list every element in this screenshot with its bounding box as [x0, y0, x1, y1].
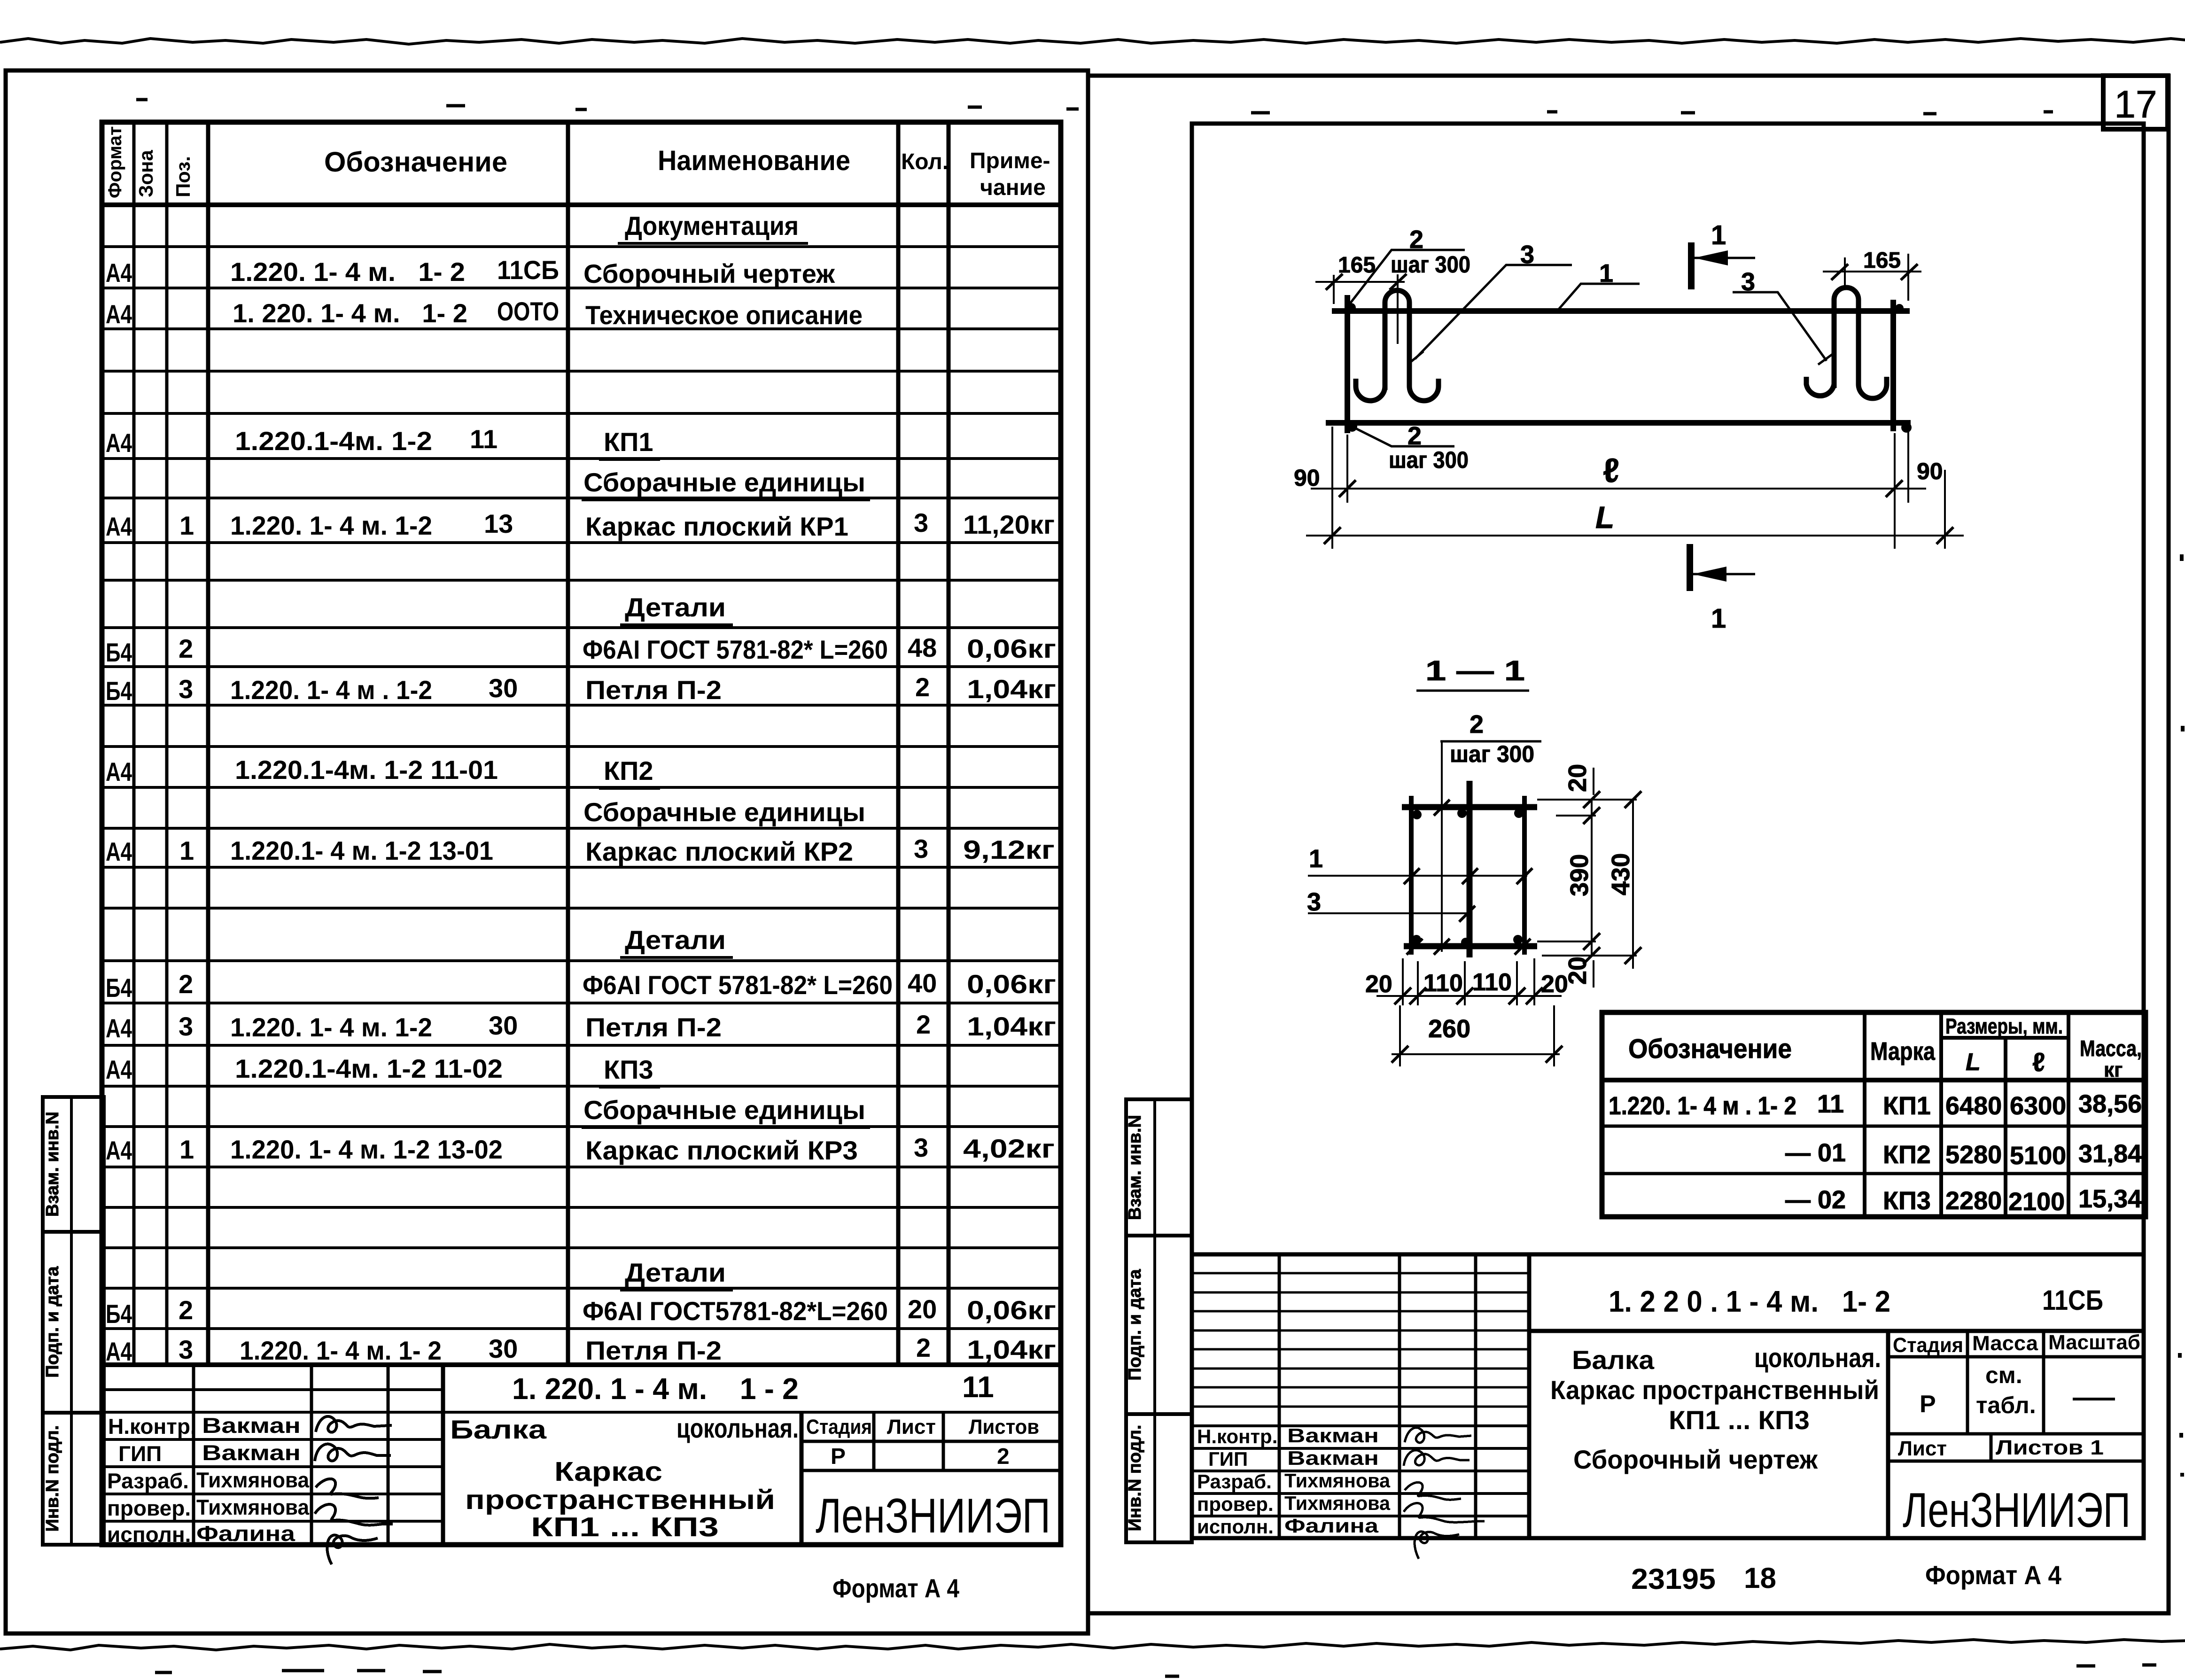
- svg-text:Кол.: Кол.: [901, 149, 949, 174]
- svg-text:Н.контр.: Н.контр.: [108, 1414, 196, 1439]
- svg-text:Балка: Балка: [1572, 1345, 1655, 1375]
- section dim ticks right: [1583, 791, 1641, 964]
- svg-text:табл.: табл.: [1976, 1392, 2036, 1418]
- svg-text:2: 2: [1470, 710, 1484, 739]
- section mark bottom line: [1687, 544, 1693, 591]
- svg-text:Сборочный чертеж: Сборочный чертеж: [583, 259, 835, 288]
- svg-text:Сборачные единицы: Сборачные единицы: [583, 467, 865, 497]
- right value масштаб dash: [2073, 1398, 2115, 1400]
- svg-text:Сборачные единицы: Сборачные единицы: [583, 797, 865, 827]
- LEFT-TITLEBLOCK-TEXT: [107, 1370, 1050, 1603]
- signature 1: [316, 1416, 392, 1432]
- svg-text:исполн.: исполн.: [107, 1522, 191, 1547]
- svg-text:3: 3: [179, 674, 193, 704]
- signature 5: [327, 1535, 378, 1564]
- svg-text:6480: 6480: [1945, 1092, 2002, 1120]
- svg-text:2: 2: [916, 1333, 931, 1362]
- svg-text:Разраб.: Разраб.: [107, 1469, 189, 1493]
- svg-text:1 — 1: 1 — 1: [1425, 655, 1525, 686]
- KP table verticals: [1865, 1012, 2068, 1217]
- svg-text:Подп. и дата: Подп. и дата: [43, 1266, 62, 1378]
- svg-text:Взам. инв.N: Взам. инв.N: [1125, 1115, 1145, 1220]
- svg-text:Ф6АI ГОСТ5781-82*L=260: Ф6АI ГОСТ5781-82*L=260: [583, 1296, 888, 1326]
- section mark top arrow shaft: [1691, 257, 1755, 259]
- svg-text:Каркас плоский КР2: Каркас плоский КР2: [585, 837, 853, 866]
- svg-text:пространственный: пространственный: [465, 1485, 775, 1515]
- right sheet outer border: [1088, 76, 2169, 1613]
- svg-text:Петля П-2: Петля П-2: [585, 675, 722, 705]
- stadia cols: [874, 1412, 943, 1470]
- svg-text:1: 1: [179, 836, 194, 865]
- RIGHT-DRAWING: [1294, 220, 1964, 1066]
- svg-text:Вакман: Вакман: [1287, 1447, 1379, 1469]
- svg-text:11: 11: [470, 424, 498, 454]
- dim l ticks: [1339, 480, 1903, 497]
- signature 2: [315, 1444, 391, 1461]
- svg-text:1: 1: [179, 1135, 194, 1164]
- svg-text:1.220.1-4м. 1-2: 1.220.1-4м. 1-2: [235, 426, 432, 456]
- section dim 20 top underline: [1593, 768, 1594, 795]
- svg-text:Масштаб: Масштаб: [2048, 1331, 2140, 1354]
- callout 2 top leader: [1348, 250, 1465, 306]
- svg-text:— 01: — 01: [1785, 1139, 1846, 1167]
- svg-text:А4: А4: [106, 299, 132, 329]
- section bottom ext lines: [1403, 958, 1534, 1005]
- svg-text:11: 11: [1817, 1090, 1844, 1118]
- dim l line: [1311, 488, 1926, 490]
- callout 3 left tick: [1407, 351, 1423, 365]
- svg-text:Разраб.: Разраб.: [1197, 1470, 1272, 1493]
- LEFT-SPEC-TABLE: [43, 122, 1061, 1545]
- svg-text:1: 1: [1309, 845, 1323, 873]
- right title block name rows: [1192, 1426, 1529, 1516]
- section tick marks: [1404, 800, 1532, 955]
- sheet number box 17: [2103, 76, 2168, 129]
- dim extension lines below beam: [1332, 427, 1945, 549]
- svg-text:Детали: Детали: [625, 1258, 726, 1287]
- svg-text:23195: 23195: [1631, 1563, 1716, 1595]
- spec table column Формат: [132, 122, 136, 1365]
- svg-text:Приме-: Приме-: [970, 148, 1050, 173]
- svg-text:11,20кг: 11,20кг: [963, 510, 1055, 539]
- svg-text:1. 2 2 0 . 1 - 4 м. 1- 2: 1. 2 2 0 . 1 - 4 м. 1- 2: [1609, 1284, 1890, 1318]
- right signature 3: [1405, 1482, 1461, 1500]
- svg-text:А4: А4: [106, 258, 132, 288]
- svg-text:165: 165: [1863, 248, 1901, 273]
- svg-text:15,34: 15,34: [2078, 1185, 2142, 1213]
- svg-text:цокольная.: цокольная.: [676, 1413, 799, 1444]
- beam bottom chord bar 1: [1326, 420, 1911, 426]
- svg-text:КП3: КП3: [604, 1055, 653, 1084]
- svg-text:L: L: [1595, 500, 1614, 535]
- svg-text:Лист: Лист: [887, 1416, 936, 1439]
- svg-text:2100: 2100: [2008, 1188, 2065, 1216]
- svg-text:А4: А4: [106, 837, 132, 866]
- section title underline: [1416, 690, 1529, 692]
- section right bar: [1522, 796, 1527, 955]
- svg-text:Листов 1: Листов 1: [1996, 1436, 2104, 1459]
- svg-text:Лист: Лист: [1898, 1437, 1947, 1460]
- svg-text:Каркас плоский КР1: Каркас плоский КР1: [585, 512, 848, 541]
- right signature 1: [1405, 1428, 1471, 1443]
- lifting loop left hook left: [1356, 379, 1385, 401]
- svg-text:38,56: 38,56: [2078, 1090, 2142, 1118]
- svg-text:ГИП: ГИП: [1208, 1448, 1248, 1470]
- svg-text:30: 30: [489, 1334, 518, 1363]
- svg-text:Масса,: Масса,: [2080, 1036, 2142, 1061]
- svg-text:шаг 300: шаг 300: [1389, 447, 1469, 473]
- svg-text:Б4: Б4: [106, 973, 132, 1003]
- spec table header bottom line: [102, 202, 1061, 207]
- svg-text:2: 2: [179, 634, 193, 663]
- section mark bottom arrowhead: [1693, 567, 1726, 582]
- svg-text:20: 20: [1563, 764, 1592, 792]
- spec table column Зона: [165, 122, 169, 1365]
- lifting loop left hook right: [1409, 379, 1439, 401]
- section mark bottom arrow shaft: [1690, 573, 1755, 576]
- dim 165 right line: [1823, 254, 1921, 301]
- svg-text:ℓ: ℓ: [2032, 1047, 2045, 1077]
- svg-text:Петля П-2: Петля П-2: [585, 1012, 722, 1042]
- svg-text:см.: см.: [1985, 1362, 2022, 1388]
- svg-text:А4: А4: [106, 1055, 132, 1084]
- top torn scan edge: [0, 39, 2185, 44]
- svg-text:кг: кг: [2104, 1058, 2123, 1081]
- svg-text:3: 3: [1307, 888, 1321, 916]
- rebar node dot top-left: [1346, 303, 1356, 312]
- svg-text:Подп. и дата: Подп. и дата: [1125, 1269, 1145, 1381]
- svg-text:31,84: 31,84: [2078, 1140, 2142, 1168]
- right signature 4: [1404, 1503, 1485, 1523]
- section dim 430 line: [1632, 800, 1634, 969]
- svg-text:КП2: КП2: [604, 756, 653, 786]
- svg-text:2280: 2280: [1945, 1187, 2002, 1215]
- svg-text:1.220. 1- 4 м. 1-2 13-02: 1.220. 1- 4 м. 1-2 13-02: [230, 1135, 503, 1164]
- right big cell bottom: [1529, 1329, 2144, 1333]
- svg-text:90: 90: [1294, 465, 1320, 491]
- right signature 2: [1404, 1450, 1470, 1466]
- section right ext lines: [1537, 800, 1637, 956]
- KP table row lines: [1602, 1126, 2146, 1174]
- svg-text:Масса: Масса: [1972, 1332, 2038, 1355]
- svg-text:3: 3: [179, 1011, 193, 1041]
- spec table column Кол divider: [896, 122, 901, 1365]
- svg-text:Ф6АI ГОСТ 5781-82* L=260: Ф6АI ГОСТ 5781-82* L=260: [583, 635, 888, 664]
- svg-text:провер.: провер.: [1197, 1493, 1274, 1515]
- title block verticals: [194, 1365, 388, 1545]
- svg-text:1.220. 1- 4 м. 1- 2: 1.220. 1- 4 м. 1- 2: [230, 257, 465, 287]
- svg-text:1. 220. 1- 4 м. 1- 2: 1. 220. 1- 4 м. 1- 2: [233, 298, 467, 328]
- svg-text:КП1 ... КП3: КП1 ... КП3: [531, 1512, 719, 1542]
- left page drawing frame / spec table outline: [102, 122, 1061, 1545]
- dim 165 right ticks: [1831, 264, 1918, 280]
- svg-text:Ф6АI ГОСТ 5781-82* L=260: Ф6АI ГОСТ 5781-82* L=260: [583, 970, 893, 1000]
- dim 165 left ticks: [1326, 274, 1407, 290]
- RIGHT-TITLEBLOCK: [1125, 1099, 2144, 1542]
- svg-text:9,12кг: 9,12кг: [963, 835, 1055, 864]
- section leader line 1: [1308, 875, 1527, 877]
- svg-text:2: 2: [179, 1295, 193, 1325]
- svg-text:Вакман: Вакман: [202, 1440, 301, 1465]
- svg-text:1,04кг: 1,04кг: [967, 1011, 1056, 1041]
- section dim 260 line: [1392, 1053, 1560, 1055]
- right title block top: [1192, 1252, 2144, 1257]
- svg-text:КП3: КП3: [1883, 1187, 1931, 1215]
- svg-text:18: 18: [1744, 1562, 1776, 1594]
- svg-text:ЛенЗНИИЭП: ЛенЗНИИЭП: [816, 1489, 1050, 1543]
- attribute strip box divider 1: [43, 1230, 104, 1234]
- LEFT-SPEC-TEXT: [105, 126, 1056, 1366]
- svg-text:шаг 300: шаг 300: [1450, 741, 1534, 767]
- svg-text:390: 390: [1565, 854, 1594, 896]
- svg-text:Инв.N подл.: Инв.N подл.: [43, 1425, 62, 1532]
- svg-text:0,06кг: 0,06кг: [967, 1295, 1056, 1325]
- svg-text:КП2: КП2: [1883, 1141, 1931, 1169]
- svg-text:КП1: КП1: [604, 427, 653, 457]
- KP table outline: [1602, 1012, 2146, 1217]
- right attribute strip box: [1126, 1099, 1192, 1542]
- svg-text:3: 3: [914, 834, 928, 863]
- svg-text:Обозначение: Обозначение: [1628, 1034, 1792, 1064]
- dim L ticks: [1324, 527, 1953, 544]
- svg-text:Обозначение: Обозначение: [324, 146, 507, 178]
- callout 3 right leader: [1733, 292, 1827, 361]
- svg-text:Вакман: Вакман: [202, 1413, 301, 1438]
- section bottom bar: [1404, 943, 1537, 949]
- svg-text:Б4: Б4: [106, 638, 132, 667]
- svg-text:Документация: Документация: [625, 211, 799, 241]
- svg-text:Детали: Детали: [625, 592, 726, 622]
- RIGHT-TITLEBLOCK-TEXT: [1197, 1284, 2140, 1595]
- big cell left edge: [441, 1365, 445, 1545]
- svg-text:1.220.1- 4 м. 1-2 13-01: 1.220.1- 4 м. 1-2 13-01: [230, 836, 493, 865]
- svg-text:260: 260: [1428, 1015, 1470, 1043]
- section dim 260 ticks: [1392, 1046, 1563, 1063]
- svg-text:20: 20: [908, 1294, 937, 1324]
- svg-text:2: 2: [916, 1010, 931, 1039]
- rebar node dot bottom-left: [1347, 421, 1357, 432]
- section corner dots: [1412, 809, 1524, 947]
- svg-text:11СБ: 11СБ: [2042, 1284, 2103, 1316]
- svg-text:КП1: КП1: [1883, 1092, 1931, 1120]
- svg-text:Р: Р: [831, 1444, 846, 1469]
- signature 4: [315, 1504, 393, 1525]
- svg-text:Н.контр.: Н.контр.: [1197, 1425, 1277, 1447]
- section callout leader vertical: [1441, 741, 1443, 952]
- svg-text:ГИП: ГИП: [118, 1441, 162, 1466]
- svg-text:1.220.1-4м. 1-2 11-02: 1.220.1-4м. 1-2 11-02: [235, 1054, 503, 1083]
- spec table column Обозначение/Наименование divider: [566, 122, 570, 1365]
- lifting loop right hook left: [1806, 377, 1834, 396]
- svg-text:А4: А4: [106, 512, 132, 541]
- svg-text:шаг 300: шаг 300: [1391, 251, 1470, 278]
- section bottom dim line: [1376, 995, 1562, 997]
- svg-text:1,04кг: 1,04кг: [967, 674, 1056, 704]
- svg-text:1.220. 1- 4 м. 1-2: 1.220. 1- 4 м. 1-2: [230, 1012, 432, 1042]
- attribute strip boxes left margin: [43, 1097, 104, 1545]
- svg-text:ООТО: ООТО: [497, 296, 559, 326]
- section left bar: [1409, 796, 1414, 955]
- svg-text:2: 2: [997, 1444, 1010, 1469]
- svg-text:Техническое описание: Техническое описание: [585, 300, 863, 330]
- svg-text:40: 40: [908, 968, 937, 998]
- svg-text:Фалина: Фалина: [196, 1521, 295, 1546]
- svg-text:430: 430: [1607, 853, 1635, 895]
- svg-text:Вакман: Вакман: [1287, 1424, 1379, 1447]
- svg-text:1.220.1-4м. 1-2 11-01: 1.220.1-4м. 1-2 11-01: [235, 755, 498, 785]
- lifting loop П-2 right: [1834, 288, 1858, 388]
- svg-text:Стадия: Стадия: [806, 1416, 872, 1439]
- svg-text:Взам. инв.N: Взам. инв.N: [43, 1112, 62, 1217]
- KP table razmery sub line: [1941, 1036, 2068, 1040]
- LEFT-TITLEBLOCK: [102, 1365, 1061, 1545]
- svg-text:Тихмянова: Тихмянова: [1284, 1470, 1391, 1492]
- section leader line 3: [1308, 912, 1472, 914]
- svg-text:3: 3: [179, 1335, 193, 1364]
- section top bar: [1402, 804, 1537, 810]
- right title/stamp divider: [1886, 1331, 1890, 1538]
- svg-text:90: 90: [1917, 458, 1943, 484]
- svg-text:чание: чание: [980, 175, 1046, 200]
- right signature 5: [1415, 1532, 1459, 1559]
- svg-text:Сборачные единицы: Сборачные единицы: [583, 1095, 865, 1125]
- svg-text:2: 2: [915, 672, 930, 702]
- svg-text:ЛенЗНИИЭП: ЛенЗНИИЭП: [1903, 1483, 2131, 1538]
- rebar node dot top-right: [1895, 304, 1904, 312]
- RIGHT-KP-TABLE: [1602, 1012, 2146, 1217]
- svg-text:11: 11: [962, 1370, 994, 1404]
- svg-text:Листов: Листов: [969, 1416, 1039, 1439]
- svg-text:Размеры, мм.: Размеры, мм.: [1945, 1014, 2063, 1038]
- stray dot marks right margin: [2180, 554, 2183, 1477]
- svg-text:20: 20: [1365, 971, 1392, 998]
- svg-text:Тихмянова: Тихмянова: [196, 1468, 309, 1492]
- svg-text:А4: А4: [106, 428, 132, 458]
- svg-text:20: 20: [1541, 971, 1568, 998]
- svg-text:13: 13: [484, 509, 513, 538]
- svg-text:Детали: Детали: [625, 925, 726, 955]
- svg-text:1: 1: [1711, 220, 1726, 250]
- svg-text:1.220. 1- 4 м. 1- 2: 1.220. 1- 4 м. 1- 2: [240, 1336, 442, 1365]
- svg-text:— 02: — 02: [1785, 1186, 1846, 1214]
- svg-text:Каркас пространственный: Каркас пространственный: [1550, 1375, 1879, 1405]
- svg-text:Инв.N подл.: Инв.N подл.: [1125, 1425, 1145, 1532]
- KP table header bottom: [1602, 1078, 2146, 1082]
- spec table bottom line: [102, 1362, 1061, 1367]
- svg-text:исполн.: исполн.: [1197, 1516, 1274, 1538]
- section dim 390 line: [1591, 800, 1593, 956]
- signature 3: [316, 1479, 379, 1498]
- svg-text:0,06кг: 0,06кг: [967, 634, 1056, 663]
- svg-text:L: L: [1966, 1049, 1981, 1076]
- svg-text:Каркас: Каркас: [554, 1456, 662, 1487]
- section dim 260 ext lines: [1400, 1005, 1554, 1066]
- svg-text:Петля П-2: Петля П-2: [585, 1336, 722, 1365]
- svg-text:Зона: Зона: [135, 150, 157, 197]
- svg-text:Наименование: Наименование: [658, 145, 850, 176]
- right attribute strip divider: [1153, 1099, 1156, 1542]
- svg-text:А4: А4: [106, 757, 132, 786]
- KP table sub column L/l: [2004, 1038, 2007, 1217]
- section middle bar: [1467, 781, 1473, 957]
- svg-text:1: 1: [179, 511, 194, 540]
- svg-text:1,04кг: 1,04кг: [967, 1335, 1056, 1364]
- stray dashes top margin: [136, 100, 2053, 114]
- svg-text:2: 2: [179, 969, 193, 999]
- svg-text:1.220. 1- 4 м. 1-2: 1.220. 1- 4 м. 1-2: [230, 511, 432, 540]
- svg-text:А4: А4: [106, 1013, 132, 1043]
- svg-text:провер.: провер.: [107, 1496, 191, 1520]
- svg-text:Р: Р: [1920, 1391, 1936, 1418]
- spec table column Примечание divider: [947, 122, 951, 1365]
- attribute strip inner divider: [70, 1097, 73, 1545]
- svg-text:Формат: Формат: [105, 126, 125, 198]
- beam left transverse bar 2: [1345, 295, 1350, 433]
- svg-text:5280: 5280: [1945, 1141, 2002, 1169]
- callout 3 left leader: [1415, 265, 1572, 359]
- svg-text:цокольная.: цокольная.: [1754, 1343, 1881, 1373]
- svg-text:Б4: Б4: [106, 1299, 132, 1329]
- svg-text:48: 48: [908, 633, 937, 662]
- right stadia grid: [1888, 1331, 2144, 1461]
- right title block big divider: [1527, 1254, 1532, 1538]
- svg-text:Сборочный чертеж: Сборочный чертеж: [1573, 1445, 1818, 1474]
- lifting loop right hook right: [1858, 377, 1887, 398]
- section mark top line: [1688, 242, 1695, 289]
- svg-text:Каркас плоский КР3: Каркас плоский КР3: [585, 1136, 858, 1165]
- section callout 2 box line: [1440, 740, 1541, 743]
- svg-text:Тихмянова: Тихмянова: [196, 1495, 309, 1519]
- svg-text:1. 220. 1 - 4 м. 1 - 2: 1. 220. 1 - 4 м. 1 - 2: [512, 1372, 799, 1406]
- svg-text:3: 3: [914, 1133, 928, 1162]
- beam right transverse bar 2: [1890, 300, 1896, 431]
- svg-text:Формат А 4: Формат А 4: [1925, 1560, 2061, 1590]
- dim 165 left line: [1315, 274, 1405, 344]
- section dim 20 bottom underline: [1593, 960, 1594, 988]
- svg-text:Тихмянова: Тихмянова: [1284, 1492, 1391, 1514]
- callout 2 bottom leader: [1352, 427, 1454, 446]
- svg-text:3: 3: [914, 508, 928, 537]
- svg-text:30: 30: [489, 673, 518, 703]
- svg-text:ℓ: ℓ: [1603, 452, 1619, 490]
- svg-text:Марка: Марка: [1870, 1037, 1936, 1066]
- svg-text:110: 110: [1472, 969, 1512, 996]
- left sheet outer border: [6, 70, 1088, 1633]
- stadia header row: [801, 1441, 1061, 1470]
- svg-text:17: 17: [2114, 83, 2157, 126]
- spec table row lines: [102, 247, 1061, 1329]
- title/stamp divider: [800, 1412, 804, 1545]
- svg-text:1.220. 1- 4 м . 1- 2: 1.220. 1- 4 м . 1- 2: [1609, 1092, 1796, 1120]
- svg-text:Б4: Б4: [106, 676, 132, 706]
- svg-text:6300: 6300: [2010, 1092, 2066, 1120]
- svg-text:110: 110: [1423, 970, 1463, 997]
- svg-text:Фалина: Фалина: [1284, 1515, 1379, 1537]
- bottom torn scan edge: [0, 1640, 2185, 1650]
- right attribute strip box lines: [1126, 1236, 1192, 1414]
- svg-text:А4: А4: [106, 1337, 132, 1366]
- right title block verticals: [1279, 1254, 1476, 1538]
- callout 3 right tick: [1818, 352, 1835, 365]
- attribute strip box divider 2: [43, 1411, 104, 1415]
- svg-text:0,06кг: 0,06кг: [967, 969, 1056, 999]
- svg-text:Балка: Балка: [450, 1415, 547, 1444]
- stray dashes bottom margin: [155, 1665, 2156, 1676]
- svg-text:4,02кг: 4,02кг: [963, 1134, 1055, 1163]
- rebar node dot bottom-right: [1901, 422, 1912, 433]
- svg-text:11СБ: 11СБ: [497, 255, 559, 285]
- beam top chord bar 1: [1332, 308, 1910, 314]
